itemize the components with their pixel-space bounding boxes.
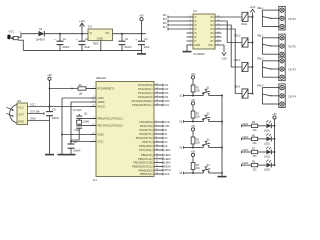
- svg-text:IC1: IC1: [93, 178, 98, 182]
- svg-text:+5V: +5V: [191, 99, 196, 102]
- svg-text:REL4: REL4: [257, 85, 264, 88]
- svg-text:GND: GND: [18, 119, 24, 123]
- svg-text:REL3: REL3: [234, 59, 241, 62]
- relay REL4 coil: [234, 86, 248, 99]
- svg-text:IN3: IN3: [164, 91, 169, 95]
- wire net LED1 label: [242, 123, 252, 127]
- svg-text:SCL: SCL: [164, 103, 170, 107]
- svg-text:PB3(MOSI/OC2): PB3(MOSI/OC2): [132, 165, 153, 169]
- svg-text:O5: O5: [210, 31, 214, 35]
- svg-text:PB5(SCK): PB5(SCK): [140, 172, 153, 176]
- svg-text:D1: D1: [39, 27, 43, 31]
- svg-text:MOSI: MOSI: [164, 164, 171, 168]
- ground rail junction nodes: [59, 50, 142, 52]
- ground symbol button rail: [218, 176, 227, 178]
- svg-text:GND: GND: [97, 37, 103, 41]
- relay REL1 coil: [242, 12, 249, 26]
- wire R1 to node: [192, 92, 194, 96]
- supply +12V relay rail: [250, 6, 256, 94]
- svg-text:+5V: +5V: [191, 73, 196, 76]
- wire X1 pin2 to ground rail: [18, 40, 23, 50]
- svg-text:O2: O2: [210, 19, 214, 23]
- pin stubs ULN2003 right: [215, 17, 222, 45]
- svg-text:REL2: REL2: [234, 35, 241, 38]
- svg-text:PC4(ADC4/SDA): PC4(ADC4/SDA): [132, 99, 153, 103]
- svg-text:VI: VI: [90, 31, 93, 35]
- resistor R3 10k: [191, 137, 200, 145]
- svg-text:PB2(SS/OC1B): PB2(SS/OC1B): [134, 161, 153, 165]
- relay REL1 contact: [257, 7, 276, 27]
- svg-text:IR1: IR1: [17, 100, 22, 103]
- LED3: [258, 146, 275, 158]
- node IR VCC +5V: [49, 106, 51, 108]
- ground symbol power section: [137, 50, 146, 54]
- capacitor C5 100nF MCU decoupling: [68, 140, 81, 154]
- svg-text:VO: VO: [105, 31, 109, 35]
- wire +5V vertical: [49, 80, 51, 111]
- svg-text:+5V: +5V: [191, 125, 196, 128]
- capacitor C3 100nF: [119, 34, 132, 51]
- node +12V rail REL4: [252, 93, 254, 95]
- svg-text:PB4(MISO): PB4(MISO): [138, 168, 152, 172]
- svg-text:IN2: IN2: [163, 18, 168, 21]
- microcontroller IC1 MEGA8 body: [93, 76, 154, 182]
- wire REL4 coil to +12V rail: [248, 93, 253, 95]
- svg-text:SDA: SDA: [164, 99, 170, 103]
- connector OUT2: [277, 34, 297, 58]
- wire MCU GND pin22: [62, 134, 96, 136]
- svg-text:+5V: +5V: [191, 150, 196, 153]
- resistor R1 10k: [191, 85, 200, 93]
- node LED rail 4: [274, 164, 276, 166]
- svg-text:O6: O6: [210, 35, 214, 39]
- supply +5V at R4: [191, 150, 196, 156]
- resistor R2 10k: [191, 111, 200, 119]
- LED4: [258, 160, 275, 172]
- node junction C4: [141, 33, 143, 35]
- node S2: [192, 121, 194, 123]
- svg-text:OUT2: OUT2: [288, 45, 296, 49]
- connector OUT1: [277, 6, 297, 30]
- svg-text:REL3: REL3: [257, 58, 264, 61]
- wire PB7 to crystal: [81, 125, 96, 127]
- svg-text:IN4: IN4: [163, 26, 168, 29]
- capacitor C4 10uF: [135, 34, 150, 51]
- svg-text:REL1: REL1: [242, 23, 249, 26]
- svg-text:100nF: 100nF: [73, 149, 81, 153]
- svg-text:PD2(INT0): PD2(INT0): [139, 128, 152, 132]
- svg-text:REL1: REL1: [257, 7, 264, 10]
- svg-text:3.58M: 3.58M: [83, 121, 89, 123]
- relay REL2 coil: [234, 35, 248, 48]
- connector OUT3: [277, 57, 297, 81]
- wire regulator output +5V rail: [113, 33, 147, 35]
- svg-text:IN4: IN4: [164, 95, 169, 99]
- node S1: [192, 95, 194, 97]
- node junction C2: [81, 33, 83, 35]
- wire net LED2 label: [242, 136, 252, 140]
- capacitor C1 100uF: [54, 34, 70, 51]
- svg-text:10uF: 10uF: [84, 45, 90, 49]
- capacitor C8 100nF IR supply: [46, 108, 59, 121]
- svg-text:PD3(INT1): PD3(INT1): [139, 132, 152, 136]
- wire X1 pin1 to main rail: [18, 34, 38, 38]
- IR receiver IR1: [7, 100, 28, 125]
- node button rail S3: [221, 147, 223, 149]
- svg-text:OUT 38k: OUT 38k: [30, 111, 40, 114]
- svg-text:7805: 7805: [93, 41, 99, 45]
- svg-text:+12V: +12V: [79, 19, 85, 23]
- wire IR VCC to AVCC: [28, 104, 97, 107]
- resistor R8 330: [252, 162, 258, 172]
- svg-text:PB0(ICP): PB0(ICP): [141, 153, 153, 157]
- svg-text:TXD: TXD: [164, 124, 169, 128]
- svg-text:PD4(XCK/T0): PD4(XCK/T0): [136, 136, 153, 140]
- svg-text:C8: C8: [52, 108, 56, 112]
- resistor R5 330: [252, 122, 258, 132]
- svg-text:LED2: LED2: [164, 153, 171, 157]
- svg-text:GND: GND: [98, 96, 104, 100]
- wire net S2 label: [179, 120, 193, 123]
- resistor R6 330: [252, 135, 258, 145]
- svg-text:O3: O3: [210, 23, 214, 27]
- supply +5V LED rail: [272, 113, 277, 165]
- LED1: [258, 120, 275, 132]
- svg-text:MEGA8: MEGA8: [96, 76, 106, 80]
- svg-text:C1: C1: [63, 37, 67, 41]
- node +12V rail REL3: [252, 66, 254, 68]
- wire GND vertical: [61, 98, 63, 154]
- svg-text:PD7(AIN1): PD7(AIN1): [139, 148, 152, 152]
- node button rail S4: [221, 172, 223, 174]
- LED2: [258, 133, 275, 145]
- svg-text:+5V: +5V: [139, 15, 144, 18]
- resistor R7 330: [252, 148, 258, 158]
- svg-text:GND: GND: [98, 133, 104, 137]
- svg-text:IN1: IN1: [164, 83, 169, 87]
- svg-text:O1: O1: [210, 15, 214, 19]
- svg-text:LED1: LED1: [164, 148, 171, 152]
- diode D1 1N4007: [36, 27, 46, 41]
- svg-text:OUT1: OUT1: [288, 17, 296, 21]
- svg-text:VCC: VCC: [30, 104, 35, 107]
- svg-text:+: +: [76, 38, 78, 42]
- wire ULN O4 to relay REL4: [222, 29, 243, 94]
- supply +12V at ULN COM pin: [221, 45, 227, 61]
- svg-text:GND: GND: [30, 118, 36, 121]
- wire REL3 coil to +12V rail: [248, 66, 253, 68]
- svg-text:PC6(RESET): PC6(RESET): [98, 87, 114, 91]
- svg-text:OUT: OUT: [18, 112, 24, 116]
- svg-text:OUT4: OUT4: [288, 94, 296, 98]
- node S4: [192, 172, 194, 174]
- svg-text:IN1: IN1: [163, 14, 168, 17]
- switch S3: [193, 138, 222, 147]
- wire IR OUT net: [28, 111, 45, 115]
- svg-text:+12V: +12V: [221, 57, 227, 61]
- svg-text:PC1(ADC1): PC1(ADC1): [138, 87, 153, 91]
- supply +5V near MCU: [47, 74, 52, 80]
- svg-text:10uF: 10uF: [144, 45, 150, 49]
- ground symbol ULN2003: [183, 45, 192, 52]
- wire MCU VCC pin7: [71, 141, 96, 143]
- svg-text:MISO: MISO: [164, 168, 171, 172]
- svg-text:LED2: LED2: [264, 143, 271, 146]
- switch S2: [193, 112, 222, 121]
- supply +5V at R2: [191, 99, 196, 105]
- svg-text:O4: O4: [210, 27, 214, 31]
- svg-text:PD1(TXD): PD1(TXD): [140, 124, 153, 128]
- pin stubs ULN2003 left: [187, 17, 194, 45]
- node LED rail 2: [274, 138, 276, 140]
- supply +5V at R1: [191, 73, 196, 79]
- svg-text:PC0(ADC0): PC0(ADC0): [138, 83, 153, 87]
- relay REL3 contact: [257, 58, 276, 77]
- wire ULN O2 to relay REL2: [222, 21, 243, 43]
- svg-text:PD0(RXD): PD0(RXD): [140, 120, 153, 124]
- node junction C3: [121, 33, 123, 35]
- pin stubs MEGA8 right with net labels: [132, 83, 172, 176]
- capacitor C2 10uF: [76, 34, 91, 51]
- relay REL4 contact: [257, 85, 276, 105]
- svg-text:PC5(ADC5/SCL): PC5(ADC5/SCL): [132, 103, 153, 107]
- svg-text:O7: O7: [210, 39, 214, 43]
- svg-text:LED3: LED3: [164, 157, 171, 161]
- wire net S1 label: [179, 94, 193, 97]
- wire net S4 label: [179, 172, 193, 175]
- wire PB6 to crystal: [81, 118, 96, 120]
- svg-text:VCC: VCC: [9, 30, 15, 34]
- svg-text:C4: C4: [144, 37, 148, 41]
- svg-text:OUT3: OUT3: [288, 68, 296, 72]
- switch S4: [193, 164, 222, 173]
- switch S1: [193, 86, 222, 95]
- svg-text:PD5(T1): PD5(T1): [142, 140, 152, 144]
- svg-text:+12V: +12V: [250, 6, 256, 9]
- supply +12V at C2: [79, 19, 85, 27]
- pin stubs MEGA8 left: [91, 87, 123, 144]
- svg-text:RXD: RXD: [164, 120, 170, 124]
- svg-text:GND: GND: [194, 43, 200, 47]
- svg-text:+: +: [135, 38, 137, 42]
- svg-text:LED4: LED4: [242, 162, 249, 165]
- wire crystal caps to ground: [71, 132, 79, 141]
- supply +5V at R3: [191, 125, 196, 131]
- ground rail power section: [23, 49, 141, 51]
- resistor R9 10k reset pullup: [49, 84, 96, 95]
- svg-text:C5: C5: [74, 140, 78, 144]
- svg-text:SCK: SCK: [164, 172, 170, 176]
- ground symbol left 3: [67, 154, 76, 156]
- wire MCU GND pin8: [62, 97, 96, 99]
- node +12V rail REL1: [252, 16, 254, 18]
- svg-text:PB1(OC1A): PB1(OC1A): [138, 157, 153, 161]
- svg-text:100uF: 100uF: [62, 45, 70, 49]
- wire R4 to node: [192, 170, 194, 174]
- node VCC pin: [70, 141, 72, 143]
- svg-text:100nF: 100nF: [124, 45, 132, 49]
- crystal Q1 with load capacitors: [73, 110, 89, 132]
- node GND pin22: [61, 134, 63, 136]
- svg-text:VCC: VCC: [18, 105, 24, 109]
- node button rail S2: [221, 121, 223, 123]
- wire net LED3 label: [242, 149, 252, 153]
- svg-text:100nF: 100nF: [52, 116, 60, 120]
- wire ULN O1 to relay REL1: [222, 16, 243, 18]
- svg-text:REL2: REL2: [257, 35, 264, 38]
- wire MCU AREF: [71, 101, 96, 103]
- node LED rail 3: [274, 151, 276, 153]
- svg-text:VCC: VCC: [98, 140, 104, 144]
- node +12V rail REL2: [252, 42, 254, 44]
- wire IR ground down: [49, 121, 51, 155]
- ground symbol left 1: [45, 154, 54, 156]
- svg-text:PC2(ADC2): PC2(ADC2): [138, 91, 153, 95]
- svg-text:+: +: [54, 38, 56, 42]
- svg-text:IN2: IN2: [164, 87, 169, 91]
- svg-text:LED4: LED4: [164, 161, 171, 165]
- svg-text:ULN2003: ULN2003: [193, 52, 205, 56]
- svg-text:C3: C3: [125, 37, 129, 41]
- svg-text:AVCC: AVCC: [98, 105, 105, 109]
- connector OUT4: [277, 84, 297, 108]
- svg-text:1N4007: 1N4007: [36, 37, 46, 41]
- relay REL2 contact: [257, 35, 276, 55]
- svg-text:LED3: LED3: [264, 156, 271, 159]
- svg-text:LED2: LED2: [242, 136, 249, 139]
- svg-text:LED1: LED1: [264, 129, 271, 132]
- wire net LED4 label: [242, 162, 252, 166]
- wire AREF vertical: [70, 102, 72, 144]
- ground symbol left 2: [58, 154, 67, 156]
- voltage regulator IC3 7805: [88, 24, 113, 45]
- op-amp driver IC U4 ULN2003 body: [193, 9, 215, 56]
- relay REL3 coil: [234, 59, 248, 72]
- pin numbers ULN2003: [190, 15, 221, 45]
- svg-text:+5V: +5V: [47, 74, 52, 77]
- connector X1 DC power input: [7, 30, 21, 40]
- svg-text:LED3: LED3: [242, 149, 249, 152]
- wire IR GND: [28, 118, 50, 121]
- wire REL2 coil to +12V rail: [248, 42, 253, 44]
- svg-text:IR: IR: [164, 128, 167, 132]
- svg-text:LED4: LED4: [264, 169, 271, 172]
- wire button common rail: [221, 96, 223, 177]
- wire regulator GND pin: [100, 41, 102, 51]
- svg-text:REL4: REL4: [234, 86, 241, 89]
- svg-text:IC3: IC3: [88, 24, 93, 28]
- supply +5V at C4: [139, 15, 144, 21]
- wire REL1 coil to +12V rail: [248, 16, 253, 18]
- resistor R4 10k: [191, 163, 200, 171]
- wire R2 to node: [192, 118, 194, 122]
- node LED rail 1: [274, 125, 276, 127]
- svg-text:PC3(ADC3): PC3(ADC3): [138, 95, 153, 99]
- svg-text:C6 10pF: C6 10pF: [73, 110, 82, 112]
- svg-text:CO+: CO+: [208, 43, 214, 47]
- svg-text:U4: U4: [193, 9, 197, 13]
- wire ULN O3 to relay REL3: [222, 25, 243, 67]
- node junction C1: [59, 33, 61, 35]
- node S3: [192, 147, 194, 149]
- svg-text:PB6(XTAL1/TOSC1): PB6(XTAL1/TOSC1): [98, 117, 123, 121]
- svg-text:IN3: IN3: [163, 22, 168, 25]
- svg-text:PB7(XTAL2/TOSC2): PB7(XTAL2/TOSC2): [98, 124, 123, 128]
- wire R3 to node: [192, 144, 194, 148]
- node button rail S1: [221, 95, 223, 97]
- svg-text:LED1: LED1: [242, 123, 249, 126]
- svg-text:AREF: AREF: [98, 100, 106, 104]
- svg-text:+5V: +5V: [272, 113, 277, 116]
- svg-text:PD6(AIN0): PD6(AIN0): [139, 144, 152, 148]
- wires ULN2003 inputs IN1-IN4: [163, 14, 187, 30]
- wire net S3 label: [179, 146, 193, 149]
- wire D1 to regulator input: [44, 33, 88, 35]
